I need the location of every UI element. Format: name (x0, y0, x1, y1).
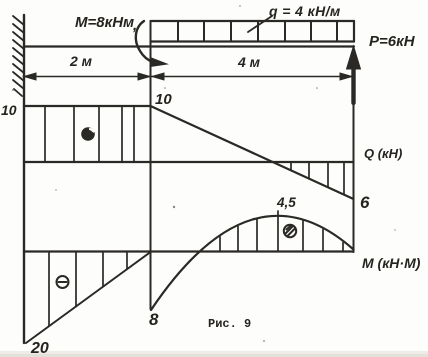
dim arrowhead right of 2m span (138, 73, 150, 80)
svg-text:4 м: 4 м (237, 54, 261, 70)
wall hatching (13, 16, 24, 96)
svg-text:Рис. 9: Рис. 9 (208, 317, 251, 331)
plus sign in Q (82, 128, 94, 140)
distributed load rectangle bottom (151, 40, 355, 42)
svg-text:8: 8 (149, 310, 159, 329)
Q positive hatching (45, 106, 134, 162)
minus sign in M (57, 276, 69, 288)
M parabola hatching (220, 220, 343, 252)
Q diagram top line (+10) (24, 105, 151, 107)
svg-text:20: 20 (30, 340, 49, 357)
Q diagram baseline (24, 161, 354, 163)
svg-text:Р=6кН: Р=6кН (369, 33, 416, 50)
svg-text:,: , (132, 17, 137, 34)
wall line / left vertical axis (23, 15, 25, 343)
svg-text:6: 6 (360, 193, 370, 212)
svg-text:2 м: 2 м (69, 53, 93, 69)
M left diagonal (to -20) (26, 252, 151, 343)
M diagram baseline (24, 250, 354, 252)
svg-text:Q (кН): Q (кН) (364, 146, 402, 161)
distributed load rectangle top (151, 20, 355, 22)
distributed load cell dividers (178, 21, 337, 42)
beam line (24, 45, 354, 47)
Q diagram sloping line (151, 106, 354, 199)
moment M arc arrow (136, 21, 153, 62)
force P arrow (351, 62, 355, 103)
dim arrowhead left (2m) (24, 73, 36, 80)
M parabola (151, 216, 354, 310)
svg-text:М (кН·М): М (кН·М) (362, 255, 421, 271)
dim arrowhead left of 4m span (152, 73, 164, 80)
q leader line (248, 16, 272, 32)
Q negative hatching (291, 162, 344, 195)
dim arrowhead right (4m) (340, 73, 352, 80)
dimension line (24, 76, 352, 78)
plus sign in M parabola (284, 225, 296, 237)
bottom scan shadow (0, 351, 428, 357)
moment arrowhead (150, 58, 167, 67)
vertical at right end (353, 103, 355, 252)
M peak tick (4.5) (277, 211, 279, 252)
svg-text:10: 10 (1, 102, 17, 118)
M left hatching (49, 252, 127, 327)
svg-text:10: 10 (155, 91, 172, 108)
svg-text:4,5: 4,5 (276, 195, 296, 210)
distributed load right edge (353, 21, 355, 42)
svg-text:М=8кНм: М=8кНм (75, 14, 134, 31)
vertical at 2m point (150, 21, 152, 309)
svg-text:q = 4 кН/м: q = 4 кН/м (269, 3, 341, 19)
